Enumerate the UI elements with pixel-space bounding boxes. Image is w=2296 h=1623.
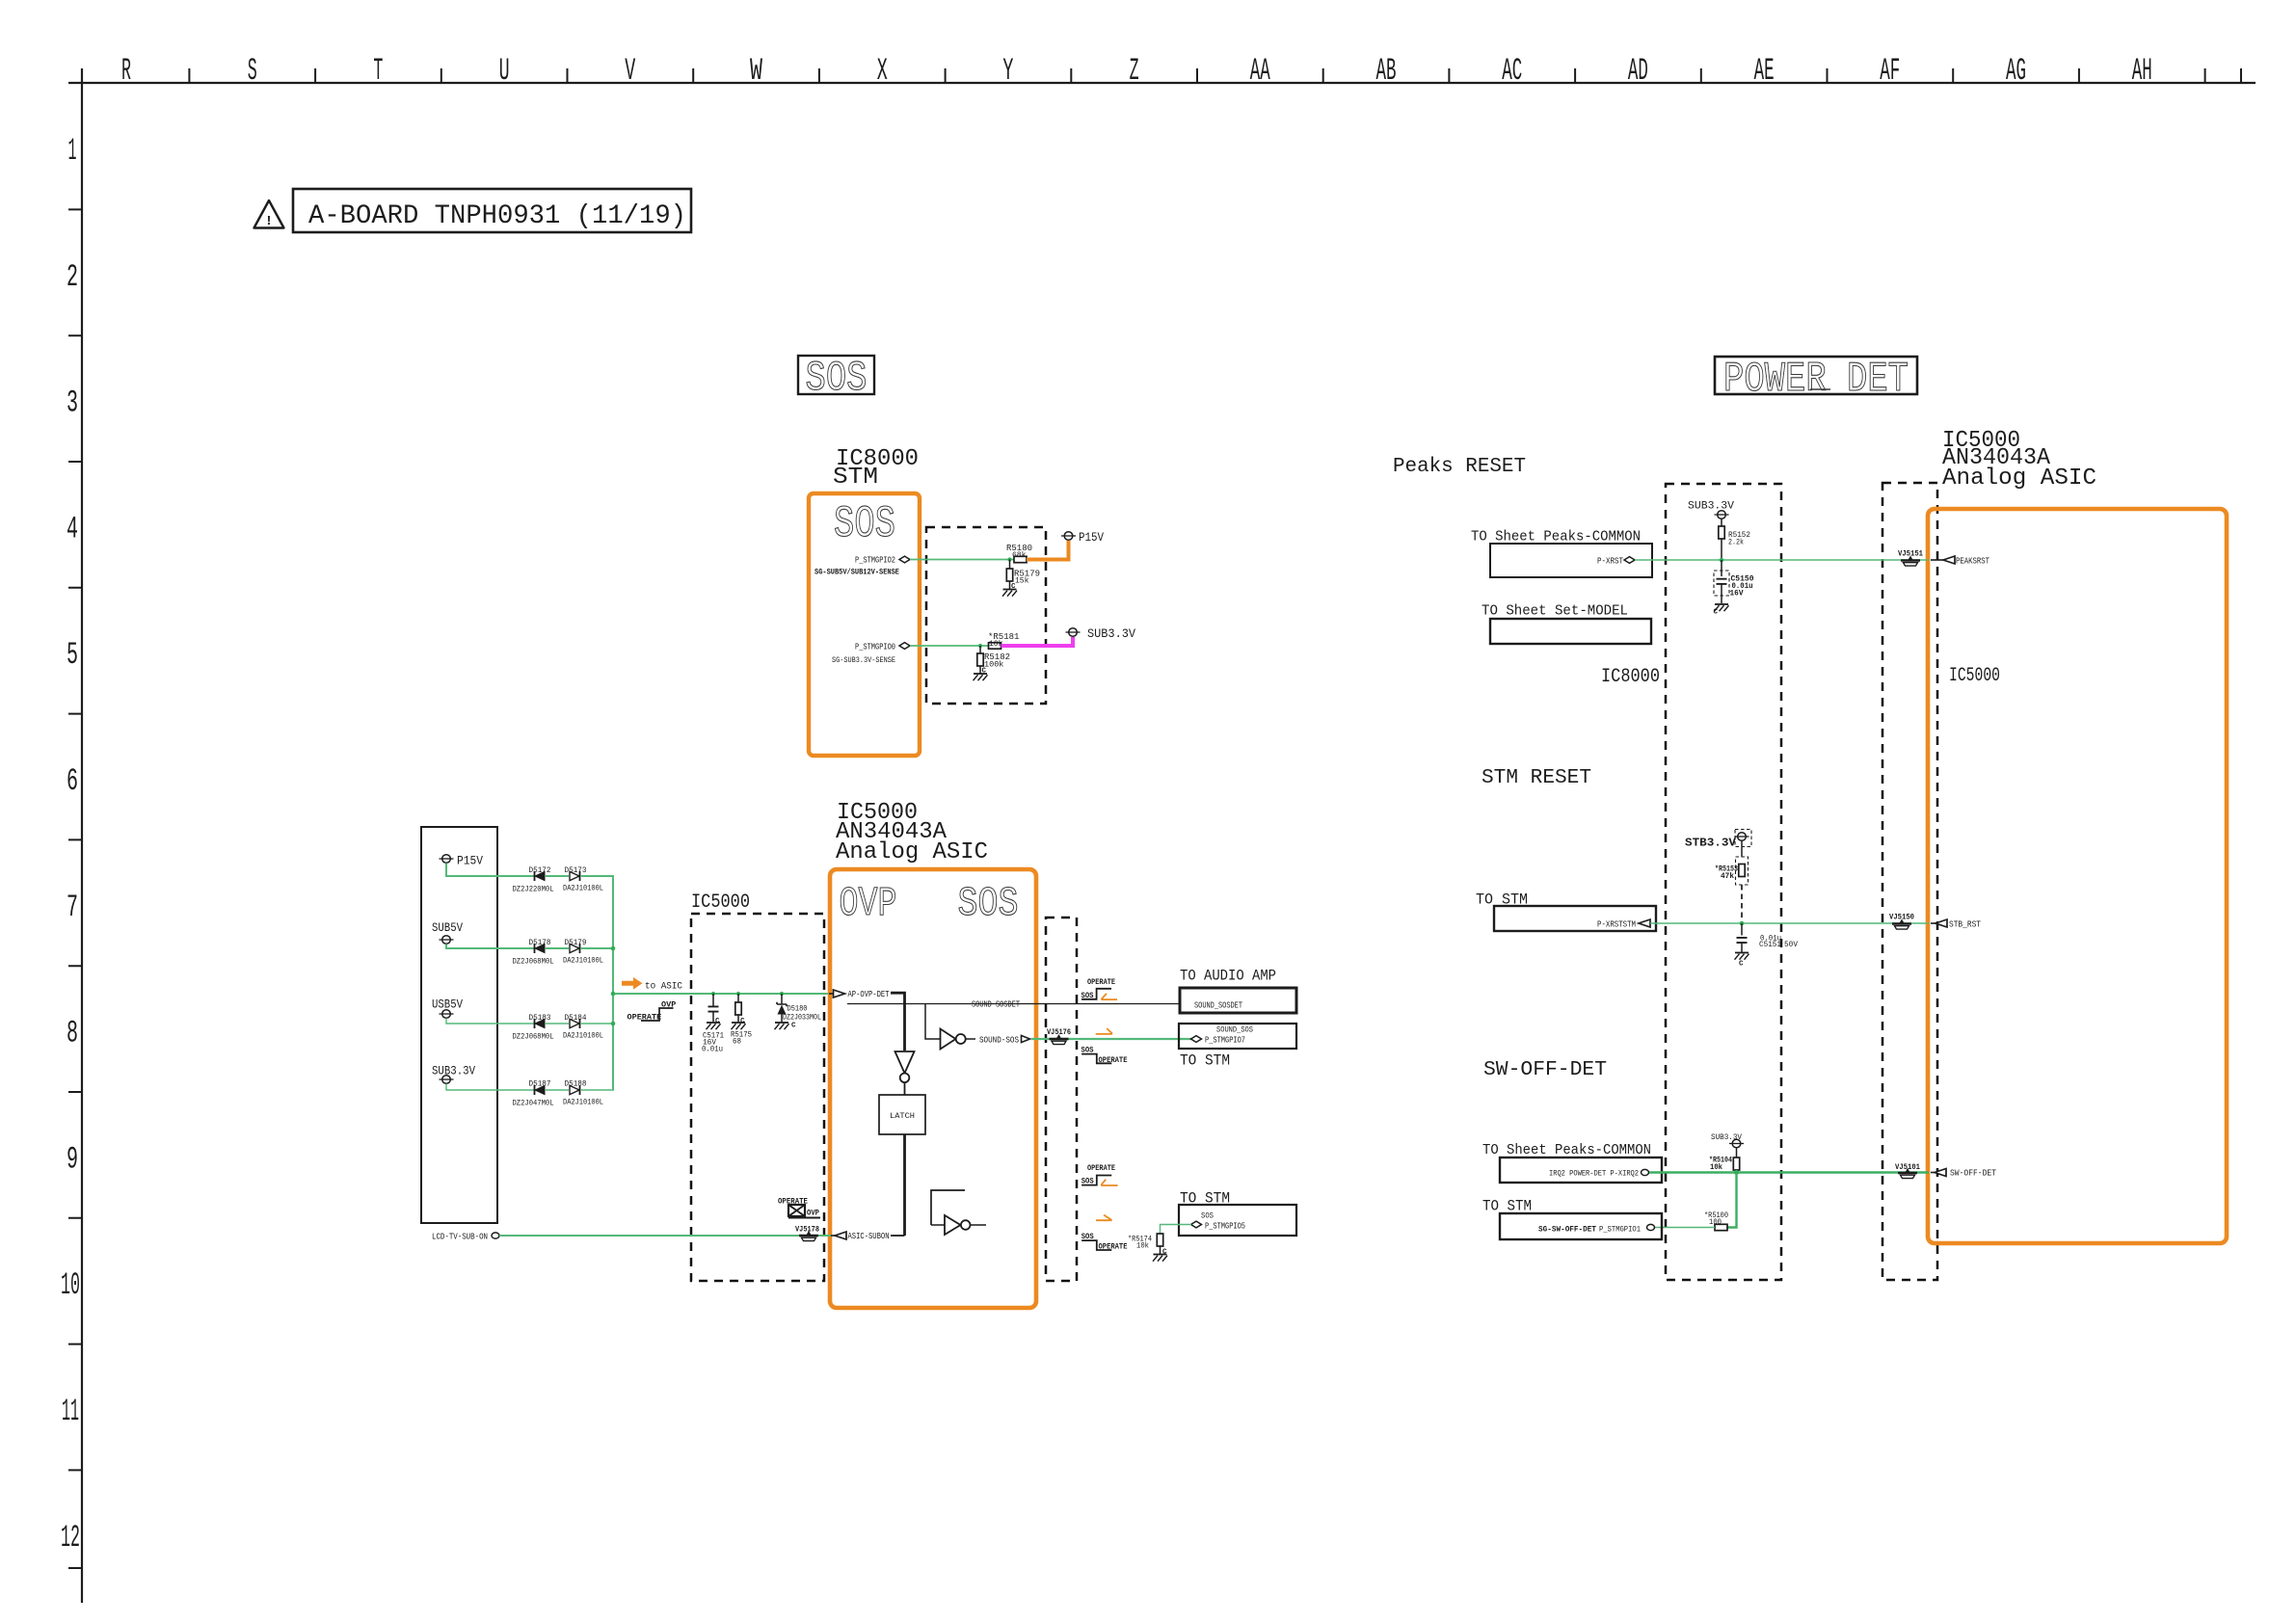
orange edge arrow lower [1096,1215,1112,1221]
svg-text:D5183: D5183 [529,1013,551,1023]
warning triangle [254,200,284,228]
svg-text:TO STM: TO STM [1180,1052,1230,1070]
svg-text:SOUND_SOS: SOUND_SOS [1216,1025,1253,1035]
ground [1153,1255,1167,1262]
svg-text:P15V: P15V [457,855,483,868]
junction node [978,644,982,648]
svg-text:SOS: SOS [1201,1211,1214,1221]
svg-text:10k: 10k [1710,1162,1722,1172]
junction node [1734,1170,1739,1175]
svg-text:IRQ2 POWER-DET P-XIRQ2: IRQ2 POWER-DET P-XIRQ2 [1549,1169,1639,1179]
svg-text:SOS: SOS [958,880,1019,927]
wire [580,1023,614,1024]
AP-OVP-DET input pin [829,993,834,995]
wire [546,1089,569,1091]
IC8000 dashed box [1666,484,1781,1280]
svg-text:15k: 15k [1015,577,1029,586]
svg-text:DZ2J068M0L: DZ2J068M0L [513,1032,554,1042]
svg-text:100k: 100k [984,660,1003,670]
diode D5179 [570,944,580,953]
SUB3.3V terminal [1066,628,1081,637]
P15V terminal [440,855,454,864]
svg-text:12: 12 [61,1520,80,1556]
svg-text:2: 2 [67,259,78,295]
svg-text:D5184: D5184 [565,1013,587,1023]
top ticks [189,68,2241,83]
resistor R5153 [1736,857,1749,885]
dashed wire to junction [1741,885,1743,921]
wire to ground [1009,581,1011,589]
svg-text:D5173: D5173 [565,865,587,875]
svg-text:4: 4 [67,511,78,546]
OPERATE/OVP step symbol [641,1008,674,1021]
resistor R5181 [989,643,1001,649]
svg-text:C5151: C5151 [1759,940,1781,949]
svg-text:10k: 10k [1136,1241,1149,1251]
svg-text:OVP: OVP [840,880,897,927]
svg-text:R: R [121,53,131,89]
wire to ground [1160,1246,1161,1254]
svg-text:to ASIC: to ASIC [645,981,682,993]
SW_OFF_DET input pin [1931,1172,1935,1174]
diode D5184 [570,1019,580,1028]
TO AUDIO AMP box [1180,988,1296,1013]
row numbers [61,133,80,1556]
svg-text:DA2J10100L: DA2J10100L [563,956,603,966]
svg-text:SG-SUB3.3V-SENSE: SG-SUB3.3V-SENSE [832,656,895,665]
top border line [68,82,2256,84]
svg-text:10: 10 [61,1267,80,1303]
SOS sheet label box [798,356,874,394]
IC5000 orange box [1928,509,2227,1243]
svg-text:P_STMGPIO7: P_STMGPIO7 [1205,1035,1245,1046]
wire [546,947,569,949]
output pin triangle [1022,1035,1030,1042]
main wire to ASIC [613,993,830,995]
inverter (SOUND-SOS) [941,1029,956,1050]
wire P15V row [446,864,534,877]
wire [580,947,614,949]
wire SUB5V row [446,945,534,949]
wire USB5V row [446,1019,534,1024]
capacitor C5150 [1721,560,1722,576]
green wire P-XRSTSTM to STB_RST [1650,922,1929,924]
svg-text:IC5000: IC5000 [691,891,750,914]
wire P_STMGPIO2 to R5180 [910,559,1015,561]
svg-text:P_STMGPIO0: P_STMGPIO0 [855,642,895,652]
svg-text:AE: AE [1754,53,1775,89]
junction nodes on bus [611,946,616,951]
branch to SOUND-SOS inverter [925,1004,941,1040]
svg-text:SOS: SOS [834,499,895,549]
svg-text:DZ2J033MOL: DZ2J033MOL [783,1013,821,1023]
green wire P-XRST to PEAKSRST [1635,559,1929,561]
svg-text:P_STMGPIO2: P_STMGPIO2 [855,555,895,566]
svg-text:STM RESET: STM RESET [1482,767,1591,789]
svg-text:8: 8 [67,1016,78,1051]
SECTION POWER-DET [1393,356,2227,1280]
svg-text:V: V [625,53,635,89]
svg-text:W: W [750,53,763,89]
svg-text:0.01u: 0.01u [702,1045,723,1054]
svg-text:C: C [982,668,987,676]
svg-text:ASIC-SUBON: ASIC-SUBON [848,1231,890,1241]
svg-text:5: 5 [67,637,78,673]
svg-text:S: S [248,53,257,89]
svg-text:SW-OFF-DET: SW-OFF-DET [1483,1059,1607,1081]
TO Sheet Peaks-COMMON box lower [1500,1157,1662,1183]
svg-text:6: 6 [67,763,78,799]
svg-text:D5179: D5179 [565,938,587,947]
svg-text:LCD-TV-SUB-ON: LCD-TV-SUB-ON [432,1232,488,1242]
svg-text:3: 3 [67,386,78,421]
svg-text:TO Sheet Set-MODEL: TO Sheet Set-MODEL [1482,604,1628,620]
green wire LCD-TV-SUB-ON to ASIC-SUBON [499,1235,831,1237]
svg-text:SOS: SOS [806,355,868,403]
POWER_DET sheet label box [1715,357,1917,394]
resistor R5100 [1715,1224,1727,1230]
svg-text:2.2k: 2.2k [1728,538,1744,547]
P15V terminal [1061,532,1076,541]
svg-text:D5187: D5187 [529,1079,551,1089]
resistor R5182 [977,653,983,666]
svg-text:D5188: D5188 [565,1079,587,1089]
diode D5178 [535,944,546,953]
svg-text:A-BOARD TNPH0931 (11/19): A-BOARD TNPH0931 (11/19) [308,201,686,231]
TO STM box (P_STMGPIO1) [1500,1213,1662,1239]
diode D5188 [570,1085,580,1095]
IC5000 narrow dashed box [1882,483,1937,1280]
feedback loop inverter [931,1190,965,1225]
svg-text:Z: Z [1130,53,1139,89]
supply box [421,827,497,1223]
green wire P_STMGPIO5 to R5174 [1161,1225,1192,1235]
green wire P-XIRQ2 to SW_OFF_DET [1649,1171,1929,1173]
dashed box around R5180 group [926,527,1046,704]
svg-text:P_STMGPIO1: P_STMGPIO1 [1599,1225,1641,1235]
svg-text:SUB3.3V: SUB3.3V [432,1065,475,1078]
zener diode D5180 [781,994,783,1004]
diode D5187 [535,1085,546,1095]
svg-text:68k: 68k [1012,551,1027,560]
svg-text:7: 7 [67,890,78,925]
orange edge arrow [1096,1028,1112,1034]
green bus [612,876,614,1090]
TITLE [254,189,692,232]
svg-text:OPERATE: OPERATE [627,1013,662,1023]
svg-text:Analog ASIC: Analog ASIC [836,839,988,865]
svg-text:TO AUDIO AMP: TO AUDIO AMP [1180,968,1276,985]
TO Sheet Set-MODEL box [1490,619,1651,644]
green wire SOUND-SOS to P_STMGPIO7 [1031,1038,1191,1040]
svg-text:OVP: OVP [661,1000,676,1010]
svg-text:AA: AA [1250,53,1270,89]
svg-text:AC: AC [1502,53,1522,89]
resistor R5180 [1014,556,1027,562]
magenta wire to SUB3.3V [1001,637,1074,646]
svg-text:SG-SUB5V/SUB12V-SENSE: SG-SUB5V/SUB12V-SENSE [814,569,899,577]
svg-text:LATCH: LATCH [890,1111,915,1121]
IC8000 STM orange box [809,493,920,756]
resistor R5152 [1719,526,1724,539]
wire SUB3.3V row [446,1084,534,1091]
narrow dashed box [1046,918,1077,1281]
column letters [121,53,2152,89]
TO STM box (SOUND_SOS) [1179,1024,1296,1049]
ground [974,674,988,680]
svg-text:AD: AD [1628,53,1648,89]
junction node [1720,558,1724,563]
wire [546,875,569,877]
orange wire to P15V [1027,541,1069,560]
PEAKSRST input pin [1931,559,1943,561]
ground [1715,604,1729,611]
svg-text:OPERATE: OPERATE [1087,977,1115,987]
svg-text:D5172: D5172 [529,865,551,875]
wire P_STMGPIO0 to R5181 [910,645,990,647]
svg-text:DZ2J068M0L: DZ2J068M0L [513,957,554,967]
IC5000 dashed box [691,914,824,1281]
SECTION SOS-IC8000 [798,355,1135,756]
svg-text:11: 11 [62,1394,79,1429]
resistor R5104 [1733,1157,1739,1170]
svg-text:OPERATE: OPERATE [1099,1241,1128,1251]
svg-text:16V: 16V [1730,589,1745,599]
svg-text:SOUND SOSDET: SOUND SOSDET [972,1000,1020,1010]
svg-text:AG: AG [2006,53,2026,89]
svg-text:DZ2J047M0L: DZ2J047M0L [513,1099,554,1108]
TO STM box (SOS P_STMGPIO5) [1179,1205,1296,1236]
svg-text:Y: Y [1002,53,1013,89]
diode D5183 [535,1019,546,1028]
ground [1002,590,1017,597]
wire [546,1023,569,1024]
svg-text:C: C [1739,961,1744,969]
wire R5179 down [1009,560,1011,570]
diode D5173 [570,871,580,881]
svg-text:X: X [877,53,888,89]
svg-text:P-XRST: P-XRST [1597,557,1623,567]
svg-text:IC8000: IC8000 [1601,666,1660,688]
wire LATCH down to ASIC-SUBON [903,1134,906,1236]
svg-text:STM: STM [833,465,878,491]
svg-text:Analog ASIC: Analog ASIC [1942,466,2096,492]
svg-text:10k: 10k [989,640,1003,649]
svg-text:68: 68 [733,1037,741,1047]
svg-text:SG-SW-OFF-DET: SG-SW-OFF-DET [1538,1225,1596,1235]
wire to LATCH [904,1082,906,1095]
SOUND_SOSDET line [847,1003,1180,1005]
svg-text:DA2J10100L: DA2J10100L [563,1098,603,1107]
junction node [1740,921,1745,926]
resistor R5179 [1006,569,1012,581]
wire [580,1089,614,1091]
wire R5182 down [979,646,981,653]
svg-text:C: C [1162,1249,1167,1257]
svg-text:100: 100 [1709,1217,1722,1227]
green wire down to R5100 [1728,1173,1737,1228]
svg-text:47k: 47k [1721,871,1734,881]
TO STM box (P-XRSTSTM) [1494,906,1656,931]
svg-text:SW-OFF-DET: SW-OFF-DET [1950,1169,1997,1179]
svg-text:STB_RST: STB_RST [1949,920,1982,930]
wire from pin down to inverter [891,993,905,1051]
svg-text:P_STMGPIO5: P_STMGPIO5 [1205,1221,1245,1232]
SECTION MIDDLE [421,800,1296,1308]
svg-text:STB3.3V: STB3.3V [1685,838,1736,850]
svg-text:P15V: P15V [1079,531,1104,545]
svg-text:D5178: D5178 [529,938,551,947]
resistor R5175 [737,994,739,1003]
wire [580,875,614,877]
svg-text:PEAKSRST: PEAKSRST [1956,557,1989,567]
svg-text:AH: AH [2132,53,2152,89]
LATCH box [879,1095,925,1134]
svg-text:OPERATE: OPERATE [1099,1055,1128,1065]
svg-text:TO Sheet Peaks-COMMON: TO Sheet Peaks-COMMON [1482,1143,1651,1158]
svg-text:SUB5V: SUB5V [432,921,463,935]
svg-text:AP-OVP-DET: AP-OVP-DET [848,989,890,999]
svg-text:T: T [373,53,383,89]
wire to ground [979,666,981,674]
svg-text:OPERATE: OPERATE [1087,1163,1115,1173]
diode D5172 [535,871,546,881]
left border line [81,68,83,1603]
OVP SOS orange box [830,869,1036,1308]
svg-text:C: C [1011,583,1016,591]
svg-text:AB: AB [1376,53,1397,89]
svg-text:DZ2J220M0L: DZ2J220M0L [513,885,554,894]
junction node [1007,557,1011,561]
svg-text:OVP: OVP [807,1209,819,1218]
svg-text:C: C [1714,609,1719,617]
svg-text:POWER DET: POWER DET [1723,356,1909,404]
resistor R5174 [1157,1234,1162,1246]
svg-text:SOUND_SOSDET: SOUND_SOSDET [1194,1001,1242,1011]
svg-text:U: U [499,53,510,89]
svg-text:SOUND-SOS: SOUND-SOS [979,1035,1019,1046]
ground [1735,953,1749,960]
svg-text:VJ5178: VJ5178 [795,1225,819,1235]
svg-text:!: ! [265,214,273,229]
title box A-BOARD TNPH0931 (11/19) [293,189,691,232]
TO Sheet Peaks-COMMON box [1490,544,1652,577]
left ticks [68,209,82,1568]
ASIC-SUBON input pin [830,1235,836,1237]
svg-text:SUB3.3V: SUB3.3V [1688,501,1734,513]
svg-text:9: 9 [67,1141,78,1177]
capacitor C5151 [1741,923,1743,936]
svg-text:AF: AF [1880,53,1900,89]
STB_RST input pin [1931,922,1936,924]
svg-text:P-XRSTSTM: P-XRSTSTM [1597,920,1636,930]
svg-text:1: 1 [68,133,77,169]
thin green wire to P_STMGPIO1 [1655,1227,1715,1229]
capacitor C5171 [712,994,714,1006]
svg-text:DA2J10100L: DA2J10100L [563,1031,603,1041]
svg-text:Peaks RESET: Peaks RESET [1393,456,1526,478]
svg-text:SUB3.3V: SUB3.3V [1087,626,1135,641]
inverter (down) [895,1051,915,1074]
to ASIC orange arrow [622,977,643,990]
svg-text:50V: 50V [1784,940,1799,949]
svg-text:IC5000: IC5000 [1949,665,2000,687]
svg-text:C: C [791,1023,796,1030]
svg-text:DA2J10100L: DA2J10100L [563,884,603,893]
